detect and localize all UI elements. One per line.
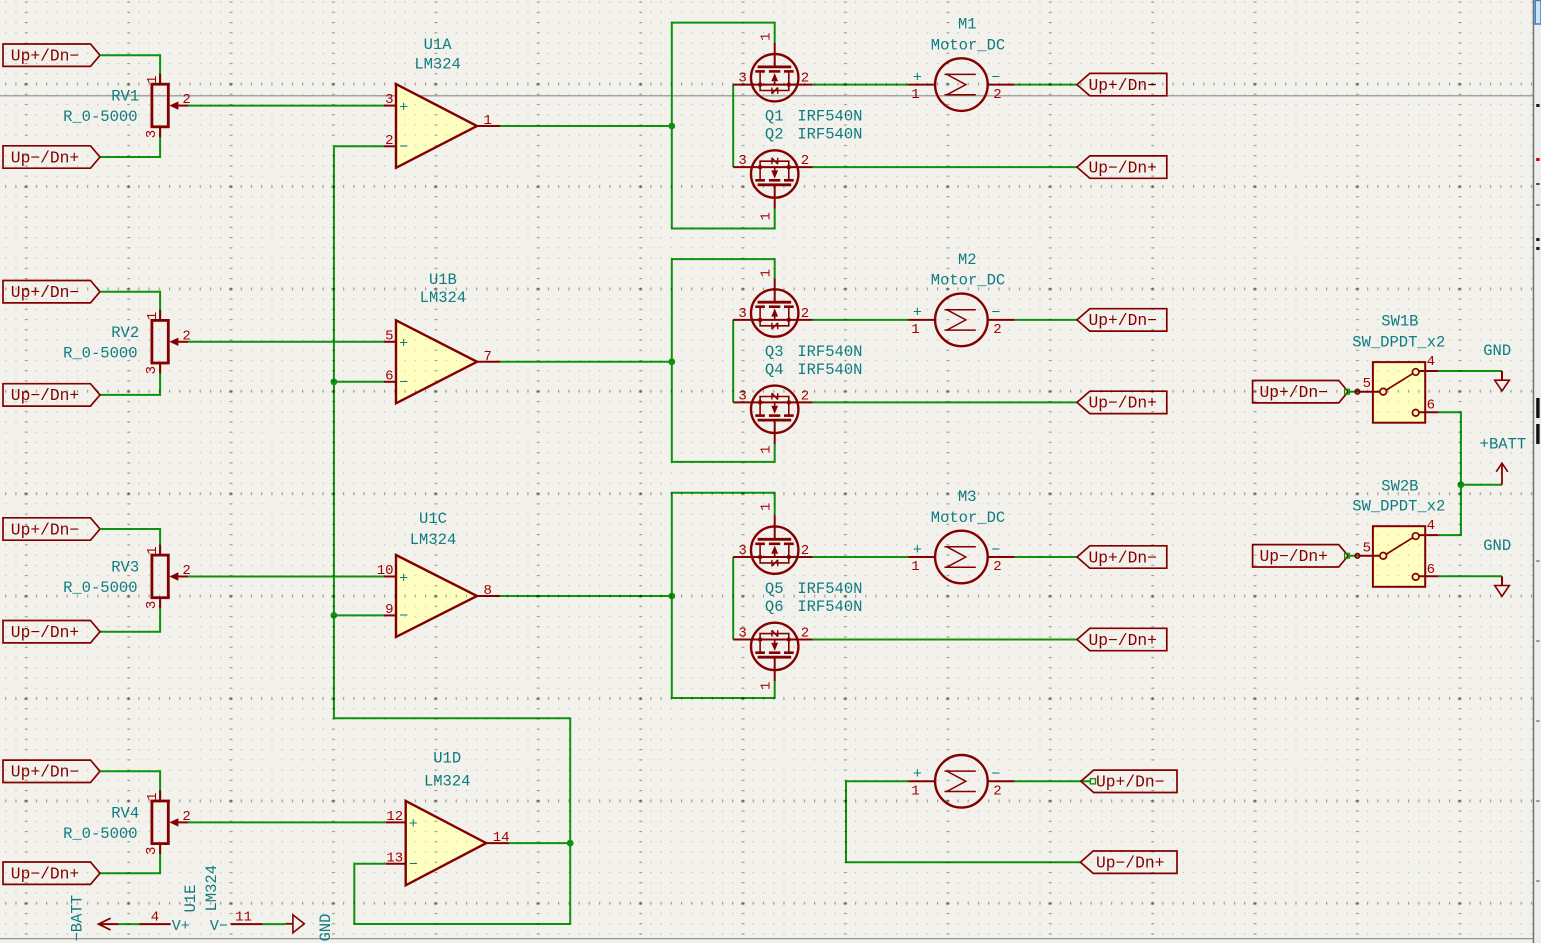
hierarchical label Up-/Dn+ (row 2 left bottom) [3, 384, 100, 406]
wire Q1 source to Q2 source [732, 85, 734, 168]
wire U1E V- to GND [263, 923, 286, 925]
junction at op-amp U1B output [668, 358, 675, 365]
wire label to RV2 pin 1 [100, 292, 160, 321]
wire gate rail Q3/Q4 [672, 259, 775, 462]
wire Q3 drain to M2 [813, 319, 909, 321]
op-amp U1A [384, 84, 500, 168]
motor M4 [909, 755, 1015, 808]
hierarchical label Up+/Dn- (SW1B input) [1253, 381, 1349, 403]
wire M2 to right label [1015, 319, 1077, 321]
SW2B ref/value labels [1352, 478, 1445, 516]
op-amp U1E power pin V+ (pin 4) [139, 918, 190, 935]
wire RV3 pin 3 to label [100, 598, 160, 632]
wire U1D feedback to inverting input [354, 843, 570, 924]
Q3/Q4 ref/value labels [765, 343, 863, 379]
wire RV2 wiper to U1B noninverting input [188, 341, 384, 343]
SW2B pin numbers [1363, 518, 1435, 578]
hierarchical label Up-/Dn+ (row 3 left bottom) [3, 621, 100, 643]
SW1B pin numbers [1363, 354, 1435, 414]
op-amp U1D [386, 801, 509, 885]
wire Q4 drain to right label [813, 401, 1078, 403]
M4 pin numbers/names [911, 766, 1001, 799]
U1B pin numbers [385, 328, 492, 384]
wire bus U1D output to inverting inputs [334, 146, 570, 843]
wire label to RV3 pin 1 [100, 529, 160, 555]
Q5/Q6 ref/value labels [765, 580, 863, 616]
potentiometer RV2 [152, 310, 188, 374]
hierarchical label Up+/Dn- (row 1 left top) [3, 44, 100, 66]
hierarchical label Up+/Dn- (row 3 left top) [3, 518, 100, 540]
junction bus to U1C inverting input [331, 612, 338, 619]
U1A ref/value labels [414, 36, 461, 74]
RV1 ref/value labels [63, 88, 139, 127]
junction at op-amp U1A output [668, 123, 675, 130]
power symbol +BATT [1496, 463, 1508, 485]
wire RV3 wiper to U1C noninverting input [188, 576, 384, 578]
wire M1 to right label [1015, 84, 1077, 86]
RV2 ref/value labels [63, 324, 139, 363]
hierarchical label Up+/Dn- (row 2 right top) [1077, 309, 1167, 331]
wire RV1 wiper to U1A noninverting input [188, 105, 384, 107]
RV3 pin numbers [144, 546, 191, 609]
hierarchical label Up+/Dn- (row 3 right top) [1077, 546, 1167, 568]
Q1/Q2 ref/value labels [765, 108, 863, 144]
U1A pin numbers [385, 92, 492, 149]
wire Q3 source to Q4 source [732, 320, 734, 403]
hierarchical label Up+/Dn- (row 2 left top) [3, 281, 100, 303]
Q2 pin numbers [738, 153, 809, 220]
Q1 pin numbers [738, 32, 809, 86]
hierarchical label Up-/Dn+ (row 3 right bottom) [1077, 628, 1167, 650]
M3 pin numbers/names [911, 542, 1001, 575]
wire SW1B pin 6 to SW2B pin 4 [1438, 412, 1461, 535]
power symbol GND (SW2B) [1495, 576, 1510, 596]
hierarchical label Up-/Dn+ (row 4 left bottom) [3, 862, 100, 884]
wire U1C output to gate rail [500, 595, 672, 597]
op-amp U1C [384, 555, 500, 637]
RV1 pin numbers [144, 75, 191, 138]
motor M2 [909, 294, 1015, 347]
wire junction to +BATT [1461, 484, 1502, 486]
U1C pin numbers [377, 563, 492, 618]
wire SW1B pin 4 to GND [1438, 370, 1502, 372]
M3 ref/value labels [931, 488, 1005, 527]
power symbol GND (U1E) [286, 915, 305, 933]
motor M1 [909, 58, 1015, 111]
wire RV4 pin 3 to label [100, 844, 160, 874]
U1D pin numbers [386, 809, 509, 866]
M2 pin numbers/names [911, 305, 1001, 338]
potentiometer RV3 [152, 545, 188, 609]
transistor Q2 [733, 150, 812, 208]
switch SW2B [1355, 526, 1438, 587]
wire bus to U1B inverting input [334, 381, 384, 383]
power symbol GND (SW1B) [1495, 371, 1510, 391]
wire M3 to right label [1015, 556, 1077, 558]
transistor Q4 [733, 386, 812, 444]
transistor Q5 [733, 515, 812, 573]
op-amp U1B [384, 320, 500, 403]
wire Q1 drain to M1 [813, 84, 909, 86]
transistor Q6 [733, 623, 812, 681]
hierarchical label Up+/Dn- (bottom motor right top) [1081, 770, 1177, 792]
wire label to SW2B pin 5 [1348, 555, 1360, 557]
RV2 pin numbers [144, 312, 191, 375]
wire SW2B pin 6 to GND [1438, 575, 1502, 577]
wire U1D output to bus [509, 842, 570, 844]
Q6 pin numbers [738, 626, 809, 691]
wire U1B output to gate rail [500, 361, 672, 363]
M2 ref/value labels [931, 251, 1005, 290]
hierarchical label Up+/Dn- (row 1 right top) [1077, 73, 1167, 95]
wire gate rail Q1/Q2 [672, 23, 775, 229]
hierarchical label Up+/Dn- (row 4 left top) [3, 760, 100, 782]
wire gate rail Q5/Q6 [672, 493, 775, 698]
transistor Q1 [733, 43, 812, 101]
unconnected wire end square [1090, 779, 1095, 784]
U1C ref/value labels [410, 510, 457, 549]
M1 ref/value labels [931, 16, 1005, 55]
hierarchical label Up-/Dn+ (row 1 left bottom) [3, 146, 100, 168]
wire bus to U1A inverting input [334, 145, 384, 147]
wire RV1 pin 3 to label [100, 127, 160, 157]
junction U1D output [567, 840, 574, 847]
op-amp U1E power pin V- (pin 11) [210, 918, 263, 935]
wire label to RV1 pin 1 [100, 55, 160, 84]
Q5 pin numbers [738, 503, 809, 559]
wire end square at SW2B label [1345, 553, 1350, 558]
hierarchical label Up-/Dn+ (row 1 right bottom) [1077, 156, 1167, 178]
wire U1A output to gate rail [500, 125, 672, 127]
power symbol -BATT [99, 918, 119, 930]
Q4 pin numbers [738, 388, 809, 454]
wire label to SW1B pin 5 [1348, 391, 1360, 393]
hierarchical label Up-/Dn+ (row 2 right bottom) [1077, 391, 1167, 413]
wire Q5 drain to M3 [813, 556, 909, 558]
motor M3 [909, 531, 1015, 584]
wire Q2 drain to right label [813, 166, 1078, 168]
wire bus to U1C inverting input [334, 614, 384, 616]
switch SW1B [1355, 362, 1438, 423]
wire label to RV4 pin 1 [100, 771, 160, 801]
RV4 pin numbers [144, 792, 191, 855]
U1B ref/value labels [420, 271, 467, 307]
Q3 pin numbers [738, 269, 809, 322]
potentiometer RV1 [152, 74, 188, 138]
junction +BATT tap [1458, 481, 1465, 488]
wire RV4 wiper to U1D noninverting input [188, 821, 386, 823]
wire M4 pin 2 to right label [1015, 780, 1091, 782]
wire end square at SW1B label [1345, 389, 1350, 394]
potentiometer RV4 [152, 791, 188, 855]
wire RV2 pin 3 to label [100, 363, 160, 395]
wire motor M4 pin 1 loop to bottom label [846, 781, 1080, 862]
hierarchical label Up-/Dn+ (bottom motor right bottom) [1080, 851, 1177, 873]
RV3 ref/value labels [63, 559, 139, 598]
junction bus to U1B inverting input [331, 378, 338, 385]
RV4 ref/value labels [63, 804, 139, 843]
junction at op-amp U1C output [668, 593, 675, 600]
M1 pin numbers/names [911, 69, 1001, 102]
transistor Q3 [733, 278, 812, 336]
wire Q6 drain to right label [813, 639, 1078, 641]
SW1B ref/value labels [1352, 313, 1445, 352]
wire -BATT to U1E V+ pin [119, 923, 140, 925]
hierarchical label Up-/Dn+ (SW2B input) [1253, 545, 1349, 567]
wire Q5 source to Q6 source [732, 557, 734, 640]
U1D ref/value labels [424, 750, 471, 791]
